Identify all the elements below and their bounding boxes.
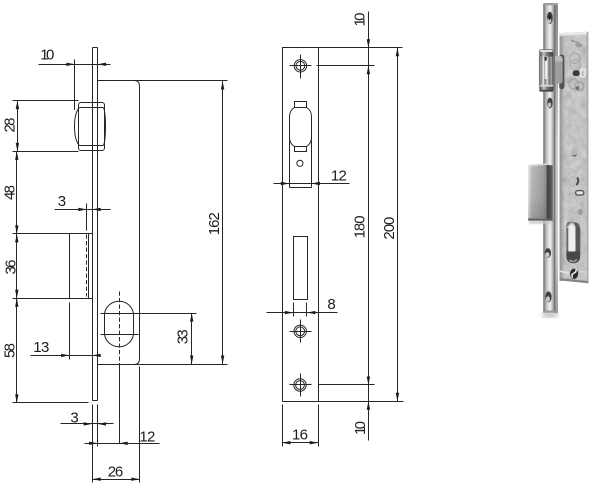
case circle pair lower xyxy=(569,79,579,89)
dimension 33 line xyxy=(191,314,193,365)
svg-text:10: 10 xyxy=(40,47,54,64)
arrows dim 12 front view xyxy=(281,182,290,185)
svg-text:48: 48 xyxy=(1,185,18,200)
strip left edge dark line xyxy=(543,3,544,312)
faceplate strip front face xyxy=(544,3,555,313)
ext bottom screw centre for 180/10 xyxy=(319,384,375,386)
roller housing (side view) xyxy=(79,103,105,151)
ext faceplate bottom right for 3b/12 xyxy=(97,405,99,447)
ext pocket left for 13 xyxy=(69,303,71,360)
dimension 36 line xyxy=(16,234,18,299)
case top corner chamfer xyxy=(584,32,588,37)
pocket box texture xyxy=(526,162,555,222)
arrows dim 48 xyxy=(15,151,18,160)
dimension 3a line xyxy=(55,209,111,211)
lower strip screw 2 xyxy=(545,291,551,302)
follower pocket box xyxy=(70,234,89,299)
ext 48 bottom / box top xyxy=(13,233,93,235)
case right edge extension down to 26 dim xyxy=(139,367,141,483)
ext plate bottom for 200/10 xyxy=(316,401,404,403)
arrows dim 3b xyxy=(84,422,93,425)
middle screw crosshair xyxy=(290,320,312,343)
arrows dim 10 left view xyxy=(66,63,75,66)
strip bottom end xyxy=(544,311,557,313)
roller bottom cap xyxy=(540,85,554,92)
case stamped pill mid xyxy=(576,191,584,196)
bottom screw hole outer xyxy=(294,379,306,391)
dimension 12 line (left view) xyxy=(85,443,160,445)
screw under slot xyxy=(559,271,569,273)
ext 58 bottom xyxy=(13,402,89,404)
arrows dim 28 xyxy=(16,101,19,110)
svg-text:16: 16 xyxy=(292,426,308,443)
bottom screw crosshair xyxy=(290,374,312,397)
roller top cap xyxy=(540,50,553,57)
case circle pair upper xyxy=(570,53,580,63)
latch slot sides xyxy=(290,127,312,188)
cylinder oval (side view) xyxy=(105,301,134,347)
arrows dim 16 xyxy=(282,441,291,444)
dimension 48 line xyxy=(16,152,18,234)
svg-text:58: 58 xyxy=(1,343,18,358)
ext plate top for 10/200 xyxy=(319,47,403,49)
svg-text:3: 3 xyxy=(58,193,66,210)
ext cylinder slot for 8 xyxy=(294,303,307,317)
case right edge line xyxy=(587,32,589,283)
svg-text:12: 12 xyxy=(139,429,155,446)
faceplate strip (side view) xyxy=(93,48,98,401)
lock case top line + 162 extension xyxy=(98,80,228,82)
bottom screw hole inner xyxy=(296,381,305,390)
arrows dim 36 xyxy=(15,234,18,243)
svg-text:26: 26 xyxy=(108,463,124,480)
lock case right edge with corners xyxy=(135,81,140,365)
roller outline xyxy=(539,50,553,92)
roller barrel dark notch xyxy=(545,57,547,61)
cylinder slot: bright interior xyxy=(568,224,575,253)
svg-text:33: 33 xyxy=(175,329,192,344)
ext 28 bottom / 48 top xyxy=(13,151,79,153)
svg-text:12: 12 xyxy=(331,168,347,185)
latch bottom cap xyxy=(295,147,307,152)
pocket box top bevel xyxy=(528,163,548,166)
dimension 10/180 vertical line xyxy=(368,12,370,441)
roller barrel bulge left xyxy=(75,108,80,146)
strip top edge xyxy=(544,3,558,5)
svg-text:200: 200 xyxy=(381,217,398,240)
arrows dim 162 xyxy=(221,81,224,90)
faceplate front view outline xyxy=(283,48,319,402)
top screw hole inner xyxy=(296,61,305,70)
svg-text:36: 36 xyxy=(2,260,19,275)
case dark slot xyxy=(573,70,580,76)
arrows dim 26 xyxy=(92,478,101,481)
roller seams xyxy=(80,108,104,146)
oval centreline solid extension xyxy=(119,366,121,444)
case bright slot bracket xyxy=(580,69,585,77)
latch barrel left side xyxy=(290,108,295,147)
svg-text:13: 13 xyxy=(33,339,49,356)
latch barrel right side xyxy=(307,108,312,147)
middle screw hole inner xyxy=(296,327,305,336)
arrows dim 10 bottom front view xyxy=(367,401,370,410)
lower strip screw 1 xyxy=(545,248,551,258)
svg-text:8: 8 xyxy=(327,296,335,313)
case bottom edge xyxy=(560,278,589,283)
svg-text:180: 180 xyxy=(351,215,368,238)
screw below roller xyxy=(547,98,552,109)
case latch slot dark xyxy=(559,55,564,90)
pocket box below shadow xyxy=(529,221,551,224)
ext 28 top xyxy=(13,100,79,102)
ext top screw centre for 10/180 xyxy=(317,65,375,67)
pocket box bottom edge xyxy=(528,218,553,221)
ext case front for 3 xyxy=(86,204,88,231)
top screw hole outer xyxy=(294,60,306,72)
case slot right mid xyxy=(578,209,582,215)
ext roller front for 10 xyxy=(74,60,76,111)
roller barrel bulge right xyxy=(104,108,106,146)
arrows dim 33 xyxy=(190,313,193,322)
dimension 200 line xyxy=(397,48,399,402)
pocket box left of strip xyxy=(528,165,546,219)
dimension 58 line xyxy=(16,299,18,403)
arrows dim 58 xyxy=(15,298,18,307)
arrows dim 3a xyxy=(78,208,87,211)
pocket box dark right band xyxy=(547,165,553,221)
cylinder slot: bottom U shadow xyxy=(566,252,580,264)
dimension 26 line xyxy=(93,479,140,481)
pocket box left bright edge xyxy=(528,166,530,218)
svg-text:10: 10 xyxy=(351,13,368,27)
dimension 3b line xyxy=(61,423,114,425)
ext 36 bottom / box bottom xyxy=(13,298,93,300)
dimension 16 line xyxy=(283,442,319,444)
svg-text:162: 162 xyxy=(206,212,223,235)
case stamped circle mid xyxy=(569,176,579,186)
dimension 13 line xyxy=(31,355,101,357)
top strip screw xyxy=(547,12,553,24)
dimension 28 line xyxy=(17,101,19,152)
case hole D pair top xyxy=(570,39,577,42)
svg-text:28: 28 xyxy=(1,118,18,133)
cylinder slot front view xyxy=(294,237,308,300)
pocket box hidden line xyxy=(86,235,88,297)
latch top cap xyxy=(295,102,307,108)
roller barrel xyxy=(539,57,553,86)
strip bottom shadow xyxy=(541,312,558,317)
lock case bottom line + extension xyxy=(98,364,228,366)
oval centre marks xyxy=(101,314,197,335)
lock case plate xyxy=(560,32,589,283)
latch guide bracket behind roller xyxy=(555,56,562,84)
cylinder slot: dark walls xyxy=(566,222,573,232)
ext plate sides for 16 xyxy=(283,405,319,447)
dimension 12 line (front view) xyxy=(274,183,350,185)
arrows dim 12 left view xyxy=(89,442,98,445)
arrows dim 8 xyxy=(285,311,294,314)
oval vertical centreline xyxy=(119,292,121,366)
svg-text:10: 10 xyxy=(352,421,369,435)
dimension 10 line (left view) xyxy=(39,64,111,66)
arrows dim 200 xyxy=(396,48,399,57)
svg-text:3: 3 xyxy=(70,409,78,426)
middle screw hole outer xyxy=(294,325,306,337)
case dimple mid xyxy=(571,149,578,156)
arrows dim 13 xyxy=(61,354,70,357)
latch fixing hole xyxy=(297,160,303,166)
arrows dim 10 top front view xyxy=(367,39,370,48)
top screw crosshair xyxy=(290,55,312,79)
strip face-side seam xyxy=(554,3,555,313)
case left shading band xyxy=(560,33,565,281)
arrows dim 180 xyxy=(367,377,370,386)
ext faceplate bottom left for 3b xyxy=(92,405,94,483)
case top edge highlight xyxy=(560,32,588,36)
strip side face xyxy=(555,3,558,313)
dimension 8 line xyxy=(267,312,338,314)
dimension 162 line xyxy=(222,81,224,365)
roller barrel ribs xyxy=(541,57,542,85)
case mottled texture xyxy=(556,28,591,288)
